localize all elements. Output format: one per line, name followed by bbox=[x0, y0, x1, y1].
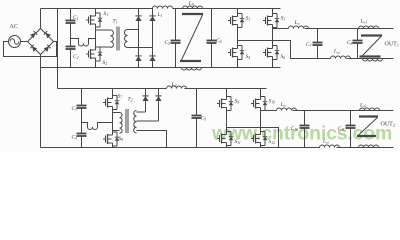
rectifier leg 1 wire ch2 bbox=[145, 89, 147, 113]
wire DC- bottom bus channel 2 bbox=[41, 147, 320, 149]
wire bridge right-leg tap to output ch2 bbox=[261, 110, 277, 112]
wire switch midpoint node bbox=[95, 27, 97, 47]
svg-text:Lo2: Lo2 bbox=[322, 140, 329, 145]
transformer T2 primary winding bbox=[120, 113, 123, 134]
wire bridge right-leg tap to output bbox=[273, 28, 289, 30]
diode D10 bbox=[155, 96, 161, 101]
wire S3 source to S4 drain bbox=[237, 28, 239, 46]
wire DC+ top bus channel 2 bbox=[58, 88, 167, 90]
wire S5 source to S6 drain bbox=[272, 28, 274, 46]
MOSFET S3 bbox=[228, 20, 231, 22]
capacitor C1 bbox=[70, 9, 72, 21]
wire S10 source to S12 drain bbox=[260, 111, 262, 132]
wire output top rail ch2 bbox=[293, 110, 394, 112]
resonant inductor Lr1 (dip in wire from C1-C2 midpoint) bbox=[71, 39, 79, 44]
MOSFET S2 bbox=[86, 53, 89, 55]
output inductor Lo bbox=[289, 26, 309, 29]
wire AC left terminal loop to bridge right vertex bbox=[4, 42, 57, 57]
rectifier leg 2 wire ch2 bbox=[158, 89, 160, 122]
MOSFET S4 bbox=[228, 52, 231, 54]
wire secondary top to rectifier leg 1 bbox=[128, 29, 139, 31]
output coupled inductor Lo1 ch2 (Z element) bbox=[360, 108, 380, 111]
MOSFET S11 bbox=[217, 138, 220, 140]
wire midpoint to T2 primary top bbox=[113, 112, 120, 114]
diode D5 bbox=[135, 16, 141, 21]
wire bridge top vertex to DC+ bus bbox=[40, 9, 42, 29]
rectifier leg 2 wire bbox=[152, 9, 154, 68]
bridge diode D1 (left-top edge) bbox=[30, 31, 37, 38]
capacitor C5 bbox=[175, 9, 177, 41]
wire DC- bottom bus channel 1 bbox=[41, 67, 281, 69]
bridge diode D4 (right-bottom edge) bbox=[44, 45, 51, 52]
wire bridge left-leg midpoint to output return bbox=[238, 41, 331, 59]
output return inductor Lo2 ch2 bbox=[320, 145, 340, 148]
filter inductor L2 bbox=[167, 86, 187, 89]
MOSFET S1 bbox=[86, 19, 89, 21]
wire T2 secondary mid tap to leg 2 bbox=[137, 120, 159, 122]
output inductor Lo ch2 bbox=[277, 108, 297, 111]
capacitor C11 bbox=[350, 111, 352, 126]
bridge rectifier outline bbox=[28, 29, 54, 55]
MOSFET S10 bbox=[251, 103, 254, 105]
wire output bottom rail ch1 bbox=[347, 58, 394, 60]
output return inductor Lo2 bbox=[331, 56, 351, 59]
wire bridge left-leg midpoint to output return ch2 bbox=[227, 128, 279, 148]
diode D6 bbox=[135, 56, 141, 61]
svg-text:OUT1: OUT1 bbox=[385, 42, 399, 48]
wire DC+ feed to channel 2 bbox=[57, 9, 59, 89]
wire output bottom rail ch2 bbox=[337, 147, 394, 149]
wire T2 secondary top to leg 1 bbox=[137, 111, 146, 113]
transformer T1 primary winding bbox=[111, 30, 114, 48]
wire AC right terminal to bridge bbox=[21, 41, 28, 43]
wire DC- feed to channel 2 bbox=[40, 68, 42, 148]
capacitor C9 bbox=[196, 89, 198, 116]
MOSFET S12 bbox=[251, 138, 254, 140]
wire T2 secondary bottom to return bbox=[137, 131, 167, 148]
capacitor C4 bbox=[81, 118, 83, 134]
coupled filter inductor Lf1 (Z element) bbox=[183, 6, 203, 9]
wire DC+ top bus channel 1 bbox=[41, 8, 153, 10]
wire bridge bottom vertex to DC- bus bbox=[40, 55, 42, 68]
capacitor C2 bbox=[70, 38, 72, 47]
bridge diode D2 (right-top edge) bbox=[44, 31, 51, 38]
MOSFET S6 bbox=[263, 52, 266, 54]
diode D9 bbox=[142, 96, 148, 101]
transformer T1 core bbox=[116, 27, 118, 51]
wire switch midpoint to primary bottom bbox=[96, 46, 111, 48]
MOSFET S5 bbox=[263, 20, 266, 22]
MOSFET S7 bbox=[103, 102, 106, 104]
capacitor C7 bbox=[317, 29, 319, 43]
wire output top rail ch1 bbox=[305, 28, 394, 30]
bridge diode D3 (left-bottom edge) bbox=[30, 45, 37, 52]
svg-text:AC: AC bbox=[10, 24, 18, 30]
diode D8 bbox=[149, 56, 155, 61]
wire switch midpoint node ch2 bbox=[112, 110, 114, 133]
transformer T2 core bbox=[125, 109, 127, 133]
wire midpoint to transformer primary top bbox=[96, 29, 111, 31]
resonant inductor Lr2 (dip in wire from C3-C4 midpoint) bbox=[82, 119, 88, 128]
MOSFET S8 bbox=[103, 138, 106, 140]
capacitor C10 bbox=[304, 111, 306, 126]
capacitor C3 bbox=[81, 89, 83, 106]
wire secondary bottom to rectifier leg 2 bbox=[128, 47, 153, 49]
rectifier leg 1 wire bbox=[138, 9, 140, 68]
transformer T1 secondary winding bbox=[125, 30, 128, 48]
diode D7 bbox=[149, 16, 155, 21]
MOSFET S9 bbox=[217, 103, 220, 105]
AC source V1 bbox=[9, 36, 21, 48]
capacitor C8 bbox=[357, 29, 359, 41]
wire switch midpoint to T2 primary bottom bbox=[113, 130, 120, 132]
transformer T2 secondary winding bbox=[134, 111, 137, 133]
svg-text:OUT2: OUT2 bbox=[381, 122, 395, 128]
output coupled inductor Lo1 (Z element) bbox=[359, 26, 379, 29]
filter inductor L1 bbox=[153, 6, 173, 9]
svg-text:Lo2: Lo2 bbox=[333, 50, 340, 55]
wire S9 source to S11 drain bbox=[226, 111, 228, 132]
capacitor C6 bbox=[211, 9, 213, 41]
